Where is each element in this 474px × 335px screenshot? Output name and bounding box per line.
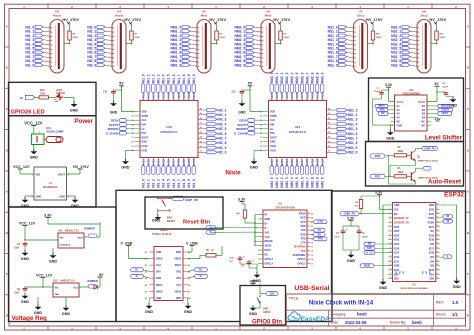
svg-text:IO0: IO0 — [430, 260, 435, 263]
svg-text:NM1_9: NM1_9 — [171, 63, 182, 67]
svg-text:SBU2: SBU2 — [156, 284, 163, 287]
svg-text:6: 6 — [390, 225, 391, 227]
svg-text:1.0: 1.0 — [452, 300, 459, 305]
svg-text:28: 28 — [281, 99, 283, 101]
svg-text:29: 29 — [276, 99, 278, 101]
svg-text:GND: GND — [70, 108, 79, 112]
svg-text:LE: LE — [270, 128, 273, 131]
svg-text:IO22: IO22 — [429, 213, 435, 216]
svg-text:GND: GND — [250, 166, 259, 170]
svg-text:A: A — [6, 24, 8, 28]
svg-text:GND: GND — [249, 280, 257, 284]
svg-text:HV5122-PJ-G: HV5122-PJ-G — [161, 130, 178, 134]
svg-text:NC: NC — [396, 270, 398, 274]
svg-text:TITLE:: TITLE: — [289, 297, 300, 301]
svg-text:NI1_9: NI1_9 — [187, 179, 191, 188]
svg-text:A2: A2 — [145, 258, 147, 261]
svg-text:HV28: HV28 — [177, 159, 181, 166]
svg-text:HV25: HV25 — [290, 159, 294, 166]
svg-text:3.3V: 3.3V — [375, 191, 383, 195]
svg-text:IO35: IO35 — [394, 230, 400, 233]
svg-text:CC1: CC1 — [176, 284, 181, 287]
svg-text:Sheet:: Sheet: — [436, 313, 446, 317]
svg-text:RI: RI — [265, 214, 268, 217]
svg-text:NC: NC — [430, 270, 432, 274]
svg-text:ESP32: ESP32 — [444, 192, 464, 199]
svg-text:NM2_0: NM2_0 — [270, 177, 274, 188]
svg-text:HV31: HV31 — [270, 149, 277, 152]
svg-text:NM2_6: NM2_6 — [300, 72, 304, 83]
svg-text:HV28: HV28 — [305, 159, 309, 166]
svg-text:DC1: DC1 — [46, 126, 52, 130]
svg-text:29: 29 — [437, 242, 439, 244]
svg-text:26: 26 — [437, 255, 439, 257]
svg-text:8: 8 — [390, 234, 391, 236]
svg-text:HV_170V: HV_170V — [209, 17, 226, 22]
svg-text:20: 20 — [193, 99, 195, 101]
svg-text:NI2_9: NI2_9 — [87, 63, 96, 67]
svg-text:GND: GND — [453, 285, 462, 289]
svg-text:D_CH: D_CH — [367, 252, 373, 254]
svg-text:HV23: HV23 — [152, 159, 156, 166]
svg-text:NM2_9: NM2_9 — [315, 177, 319, 188]
svg-text:3n: 3n — [20, 96, 24, 100]
svg-text:IO32: IO32 — [394, 234, 400, 237]
svg-text:28: 28 — [152, 99, 154, 101]
svg-text:Min2: Min2 — [265, 14, 272, 18]
svg-text:NM2_7: NM2_7 — [305, 177, 309, 188]
svg-text:VBUS: VBUS — [265, 245, 272, 248]
svg-text:GND: GND — [36, 194, 42, 198]
svg-text:28: 28 — [437, 247, 439, 249]
svg-text:30: 30 — [142, 99, 144, 101]
svg-text:+: + — [243, 255, 245, 259]
svg-text:B: B — [6, 66, 8, 70]
svg-text:20: 20 — [321, 99, 323, 101]
svg-text:NS1_9: NS1_9 — [348, 146, 358, 150]
svg-text:NM2_9: NM2_9 — [315, 72, 319, 83]
svg-text:GND: GND — [145, 310, 154, 314]
svg-text:GND: GND — [379, 286, 388, 290]
svg-text:HV_170V: HV_170V — [366, 17, 383, 22]
svg-text:NI1_2: NI1_2 — [152, 179, 156, 188]
svg-text:HV7: HV7 — [300, 92, 304, 98]
svg-text:GPIO0 Btn: GPIO0 Btn — [252, 319, 282, 325]
svg-text:STRB: STRB — [270, 115, 277, 118]
svg-text:NC: NC — [400, 270, 402, 274]
svg-text:NIC_7: NIC_7 — [217, 137, 226, 141]
svg-text:VCC_12V: VCC_12V — [36, 274, 53, 278]
svg-text:31: 31 — [437, 234, 439, 236]
svg-text:CHIP_PU: CHIP_PU — [344, 212, 356, 216]
svg-text:22: 22 — [437, 273, 439, 275]
svg-text:HV3: HV3 — [280, 92, 284, 98]
svg-text:NI1_1: NI1_1 — [147, 74, 151, 83]
svg-text:GPIO.2: GPIO.2 — [265, 262, 274, 265]
svg-text:CTS: CTS — [301, 242, 306, 245]
svg-text:REV:: REV: — [436, 301, 444, 305]
svg-text:NI1_4: NI1_4 — [162, 74, 166, 83]
svg-text:25: 25 — [311, 214, 313, 216]
svg-text:3.3V: 3.3V — [44, 214, 52, 218]
svg-text:CHIP_PU: CHIP_PU — [424, 146, 435, 150]
svg-text:A6: A6 — [145, 284, 147, 287]
svg-text:NS1_8: NS1_8 — [348, 141, 358, 145]
svg-text:VOUT: VOUT — [58, 172, 66, 176]
svg-text:Hour1: Hour1 — [53, 14, 62, 18]
svg-text:Nixie Clock with IN-14: Nixie Clock with IN-14 — [309, 300, 374, 307]
svg-text:HV27: HV27 — [300, 159, 304, 166]
svg-text:IO21: IO21 — [429, 226, 435, 229]
svg-text:GND: GND — [49, 260, 58, 264]
svg-text:A: A — [467, 190, 469, 194]
svg-text:GND: GND — [397, 124, 403, 127]
svg-text:U13: U13 — [166, 125, 172, 129]
svg-text:RTS: RTS — [301, 237, 306, 240]
svg-text:NM2_8: NM2_8 — [310, 177, 314, 188]
svg-text:HV_170V: HV_170V — [429, 17, 446, 22]
svg-text:100nF: 100nF — [362, 237, 369, 239]
svg-text:GND: GND — [429, 204, 435, 207]
svg-text:DCD: DCD — [300, 217, 305, 220]
svg-text:HV30: HV30 — [315, 159, 319, 166]
svg-text:C: C — [467, 107, 469, 111]
svg-text:Level Shifter: Level Shifter — [425, 134, 463, 141]
svg-text:NIC_5: NIC_5 — [217, 127, 226, 131]
svg-text:HV24: HV24 — [285, 159, 289, 166]
svg-text:NI1_5: NI1_5 — [167, 74, 171, 83]
svg-text:1: 1 — [390, 204, 391, 206]
svg-text:NS1_1: NS1_1 — [348, 108, 358, 112]
svg-text:25: 25 — [167, 99, 169, 101]
svg-text:D_CHAIN: D_CHAIN — [106, 132, 119, 136]
svg-text:D: D — [6, 314, 8, 318]
svg-text:NIC_0: NIC_0 — [217, 151, 226, 155]
svg-text:13: 13 — [311, 263, 313, 265]
svg-text:HV26: HV26 — [295, 159, 299, 166]
svg-text:NIC_6: NIC_6 — [217, 132, 226, 136]
svg-text:D+: D+ — [199, 268, 203, 272]
svg-text:DP1: DP1 — [176, 277, 181, 280]
svg-text:GND: GND — [347, 259, 356, 263]
svg-text:DSR: DSR — [300, 225, 305, 228]
svg-text:D-: D- — [210, 231, 213, 234]
svg-text:GND: GND — [176, 297, 182, 300]
svg-text:B: B — [467, 231, 469, 235]
svg-text:IO25: IO25 — [394, 243, 400, 246]
svg-text:NM2_6: NM2_6 — [300, 177, 304, 188]
svg-text:23: 23 — [306, 99, 308, 101]
svg-text:MMBT3904-C20526: MMBT3904-C20526 — [418, 176, 439, 179]
svg-text:23: 23 — [177, 99, 179, 101]
svg-text:VIN: VIN — [36, 172, 40, 176]
svg-text:3V3: 3V3 — [394, 208, 399, 211]
svg-text:A1: A1 — [145, 251, 147, 254]
svg-text:C: C — [467, 272, 469, 276]
svg-text:Min1: Min1 — [201, 14, 208, 18]
svg-text:C10: C10 — [103, 92, 108, 94]
svg-text:4: 4 — [390, 215, 391, 218]
svg-text:MOSI5V: MOSI5V — [441, 105, 450, 108]
svg-text:JUMPER: JUMPER — [87, 279, 98, 283]
svg-text:VDD: VDD — [265, 236, 270, 239]
svg-text:15kΩ: 15kΩ — [439, 37, 445, 39]
svg-text:32: 32 — [437, 229, 439, 231]
svg-text:GND: GND — [238, 110, 246, 114]
svg-text:HV5: HV5 — [162, 92, 166, 98]
svg-text:EasyEDA: EasyEDA — [301, 316, 331, 323]
svg-text:TXD: TXD — [301, 229, 306, 232]
svg-text:VCC_12V: VCC_12V — [13, 165, 30, 169]
svg-text:NS1_5: NS1_5 — [348, 127, 358, 131]
svg-text:5: 5 — [390, 221, 391, 223]
svg-text:GND: GND — [265, 218, 271, 221]
svg-text:21: 21 — [188, 99, 190, 101]
svg-text:18: 18 — [390, 277, 392, 279]
svg-text:GPIO0: GPIO0 — [263, 311, 271, 314]
svg-text:HV8: HV8 — [305, 92, 309, 98]
svg-text:DC005-2.5MM: DC005-2.5MM — [46, 130, 63, 134]
svg-text:STRB: STRB — [142, 115, 149, 118]
svg-text:VBUS: VBUS — [156, 258, 163, 261]
svg-text:NI1_3: NI1_3 — [157, 74, 161, 83]
svg-text:NI1_3: NI1_3 — [157, 179, 161, 188]
svg-text:NIC_1: NIC_1 — [217, 108, 226, 112]
svg-text:IO4: IO4 — [430, 256, 435, 259]
svg-text:GND: GND — [110, 110, 118, 114]
svg-text:IO5: IO5 — [430, 243, 435, 246]
svg-text:10uF: 10uF — [14, 292, 20, 294]
svg-text:2022-04-08: 2022-04-08 — [345, 320, 367, 325]
svg-text:NC: NC — [426, 270, 428, 274]
svg-text:A7: A7 — [145, 290, 147, 293]
svg-text:Hour2: Hour2 — [115, 14, 124, 18]
svg-text:Voltage Reg: Voltage Reg — [12, 315, 48, 322]
svg-text:30: 30 — [271, 99, 273, 101]
svg-text:EPAD: EPAD — [299, 213, 306, 216]
svg-text:IO18: IO18 — [429, 239, 435, 242]
svg-text:IO12: IO12 — [394, 260, 400, 263]
svg-text:25: 25 — [296, 99, 298, 101]
svg-text:HV5122-PJ-G: HV5122-PJ-G — [289, 130, 306, 134]
svg-text:23: 23 — [437, 268, 439, 270]
svg-text:NM2_3: NM2_3 — [285, 177, 289, 188]
svg-text:HV21: HV21 — [270, 159, 274, 166]
svg-text:NS1_9: NS1_9 — [328, 63, 338, 67]
svg-text:OE: OE — [368, 243, 372, 246]
svg-text:10uF: 10uF — [334, 236, 340, 238]
svg-text:IO17: IO17 — [429, 247, 435, 250]
svg-text:NM2_0: NM2_0 — [321, 72, 325, 83]
svg-text:NI1_2: NI1_2 — [152, 74, 156, 83]
svg-text:VBUS: VBUS — [174, 290, 181, 293]
svg-text:33: 33 — [437, 225, 439, 227]
svg-text:HV31: HV31 — [320, 159, 324, 166]
svg-text:Date:: Date: — [331, 321, 339, 325]
svg-text:NI1_0: NI1_0 — [192, 179, 196, 188]
svg-text:U10: U10 — [58, 229, 63, 232]
svg-text:NC: NC — [397, 120, 401, 123]
svg-text:NIC_3: NIC_3 — [217, 118, 226, 122]
svg-text:RST#: RST# — [265, 249, 272, 252]
svg-text:HV10: HV10 — [187, 91, 191, 98]
svg-text:NI1_1: NI1_1 — [147, 179, 151, 188]
svg-text:22: 22 — [183, 99, 185, 101]
svg-text:GPIO.3: GPIO.3 — [265, 258, 274, 261]
svg-text:3.3V: 3.3V — [238, 198, 246, 202]
svg-text:beeb: beeb — [357, 312, 367, 317]
svg-text:27: 27 — [437, 251, 439, 253]
svg-text:REGIN: REGIN — [265, 240, 273, 243]
svg-text:NS1_3: NS1_3 — [348, 118, 358, 122]
svg-text:15kΩ: 15kΩ — [376, 37, 382, 39]
svg-text:NM2_4: NM2_4 — [290, 72, 294, 83]
svg-text:NI1_0: NI1_0 — [142, 74, 146, 83]
svg-text:A5: A5 — [145, 277, 147, 280]
svg-text:10kΩ: 10kΩ — [398, 151, 404, 153]
svg-text:D_CHAIN: D_CHAIN — [234, 132, 247, 136]
svg-text:GND: GND — [152, 219, 161, 223]
svg-text:IO26: IO26 — [394, 247, 400, 250]
svg-text:A: A — [467, 24, 469, 28]
svg-text:GND: GND — [21, 300, 30, 304]
svg-text:14: 14 — [311, 258, 313, 261]
svg-text:SD0: SD0 — [429, 278, 434, 281]
svg-text:CLK: CLK — [270, 119, 275, 122]
svg-text:DTR: DTR — [318, 221, 323, 224]
svg-text:GND: GND — [121, 166, 130, 170]
svg-text:NI1_9: NI1_9 — [187, 74, 191, 83]
svg-text:VCCB: VCCB — [418, 101, 425, 104]
svg-text:34: 34 — [437, 220, 439, 223]
svg-text:GND: GND — [156, 251, 162, 254]
svg-text:GND: GND — [394, 204, 400, 207]
svg-text:22: 22 — [311, 99, 313, 101]
svg-text:DP2: DP2 — [156, 271, 161, 274]
svg-text:GND: GND — [21, 257, 30, 261]
svg-text:NI1_5: NI1_5 — [167, 179, 171, 188]
svg-text:SCK: SCK — [367, 247, 372, 250]
svg-text:RXD0: RXD0 — [428, 221, 435, 224]
svg-text:NCH6200HV: NCH6200HV — [43, 186, 58, 189]
svg-text:NM2_7: NM2_7 — [305, 72, 309, 83]
svg-text:NC: NC — [423, 270, 425, 274]
svg-text:HV30: HV30 — [187, 159, 191, 166]
svg-text:SUSPEND#: SUSPEND# — [293, 254, 307, 257]
svg-text:GPIO26 LED: GPIO26 LED — [11, 110, 45, 116]
svg-text:GND: GND — [184, 310, 193, 314]
svg-text:HV23: HV23 — [280, 159, 284, 166]
svg-text:NM2_3: NM2_3 — [285, 72, 289, 83]
svg-text:NIC_4: NIC_4 — [217, 122, 226, 126]
svg-text:MOSI: MOSI — [378, 105, 384, 108]
svg-text:B: B — [467, 66, 469, 70]
svg-text:NM2_1: NM2_1 — [275, 177, 279, 188]
svg-text:AMS1117-5.0: AMS1117-5.0 — [60, 280, 75, 283]
svg-text:GND: GND — [270, 141, 276, 144]
svg-text:SBU1: SBU1 — [175, 264, 182, 267]
svg-text:VCCA: VCCA — [397, 101, 404, 104]
svg-text:HV21: HV21 — [141, 159, 145, 166]
svg-text:D: D — [467, 314, 469, 318]
svg-text:IO27: IO27 — [394, 252, 400, 255]
svg-text:B6: B6 — [188, 285, 190, 287]
svg-text:CLK: CLK — [142, 119, 147, 122]
svg-text:5V: 5V — [248, 82, 253, 86]
svg-text:NI1_0: NI1_0 — [192, 74, 196, 83]
svg-text:beeb: beeb — [412, 320, 422, 325]
svg-text:26: 26 — [162, 99, 164, 101]
svg-text:NC: NC — [403, 270, 405, 274]
svg-text:HV22: HV22 — [275, 159, 279, 166]
svg-text:35: 35 — [437, 216, 439, 218]
svg-text:GPIO26: GPIO26 — [56, 92, 66, 95]
svg-text:RTS: RTS — [318, 238, 323, 241]
svg-text:IO19: IO19 — [429, 234, 435, 237]
svg-text:DTR: DTR — [375, 154, 381, 158]
svg-text:NS2_0: NS2_0 — [348, 151, 358, 155]
svg-text:HV10: HV10 — [315, 91, 319, 98]
svg-text:17: 17 — [311, 247, 313, 249]
svg-text:USB-Serial: USB-Serial — [294, 285, 329, 292]
svg-text:B: B — [447, 255, 449, 258]
svg-text:18: 18 — [311, 243, 313, 245]
svg-text:NM2_5: NM2_5 — [295, 177, 299, 188]
svg-text:SENSOR_VP: SENSOR_VP — [394, 217, 409, 220]
svg-text:NM2_4: NM2_4 — [290, 177, 294, 188]
svg-text:NM2_1: NM2_1 — [275, 72, 279, 83]
svg-text:16: 16 — [311, 251, 313, 253]
svg-text:B8: B8 — [188, 298, 190, 300]
svg-text:21: 21 — [316, 99, 318, 101]
svg-text:B7: B7 — [188, 291, 190, 293]
svg-text:30: 30 — [437, 238, 439, 240]
svg-text:15: 15 — [311, 255, 313, 257]
svg-text:HV24: HV24 — [157, 159, 161, 166]
svg-text:OE: OE — [381, 112, 385, 115]
svg-text:C10: C10 — [232, 92, 237, 94]
svg-text:NM2_5: NM2_5 — [295, 72, 299, 83]
svg-text:NI1_4: NI1_4 — [162, 179, 166, 188]
svg-text:V_USB: V_USB — [121, 241, 133, 245]
svg-text:NIC_8: NIC_8 — [217, 141, 226, 145]
svg-text:GND: GND — [249, 312, 258, 316]
svg-text:HV_170V: HV_170V — [73, 165, 89, 169]
svg-text:Vin: Vin — [60, 237, 64, 240]
svg-text:NM2_2: NM2_2 — [280, 72, 284, 83]
svg-text:NM2_0: NM2_0 — [270, 72, 274, 83]
svg-text:1uF: 1uF — [229, 261, 234, 263]
svg-text:JUMPER: JUMPER — [84, 226, 95, 230]
svg-text:VIO: VIO — [265, 231, 269, 234]
svg-text:Sec1: Sec1 — [357, 14, 364, 18]
svg-text:D-: D- — [136, 274, 139, 278]
svg-text:B: B — [6, 231, 8, 235]
svg-text:TAB: TAB — [55, 293, 60, 296]
svg-text:24: 24 — [437, 263, 439, 266]
svg-text:21: 21 — [437, 277, 439, 279]
svg-text:DOUT: DOUT — [142, 136, 149, 139]
svg-text:15kΩ: 15kΩ — [72, 37, 78, 39]
svg-text:GND: GND — [156, 297, 162, 300]
svg-text:100nF: 100nF — [442, 86, 449, 88]
svg-text:HV32: HV32 — [270, 145, 277, 148]
svg-text:3.3V: 3.3V — [385, 83, 393, 87]
svg-text:U14: U14 — [295, 125, 301, 129]
svg-text:D: D — [6, 148, 8, 152]
svg-text:NS1_2: NS1_2 — [348, 113, 358, 117]
svg-text:21: 21 — [311, 230, 313, 232]
